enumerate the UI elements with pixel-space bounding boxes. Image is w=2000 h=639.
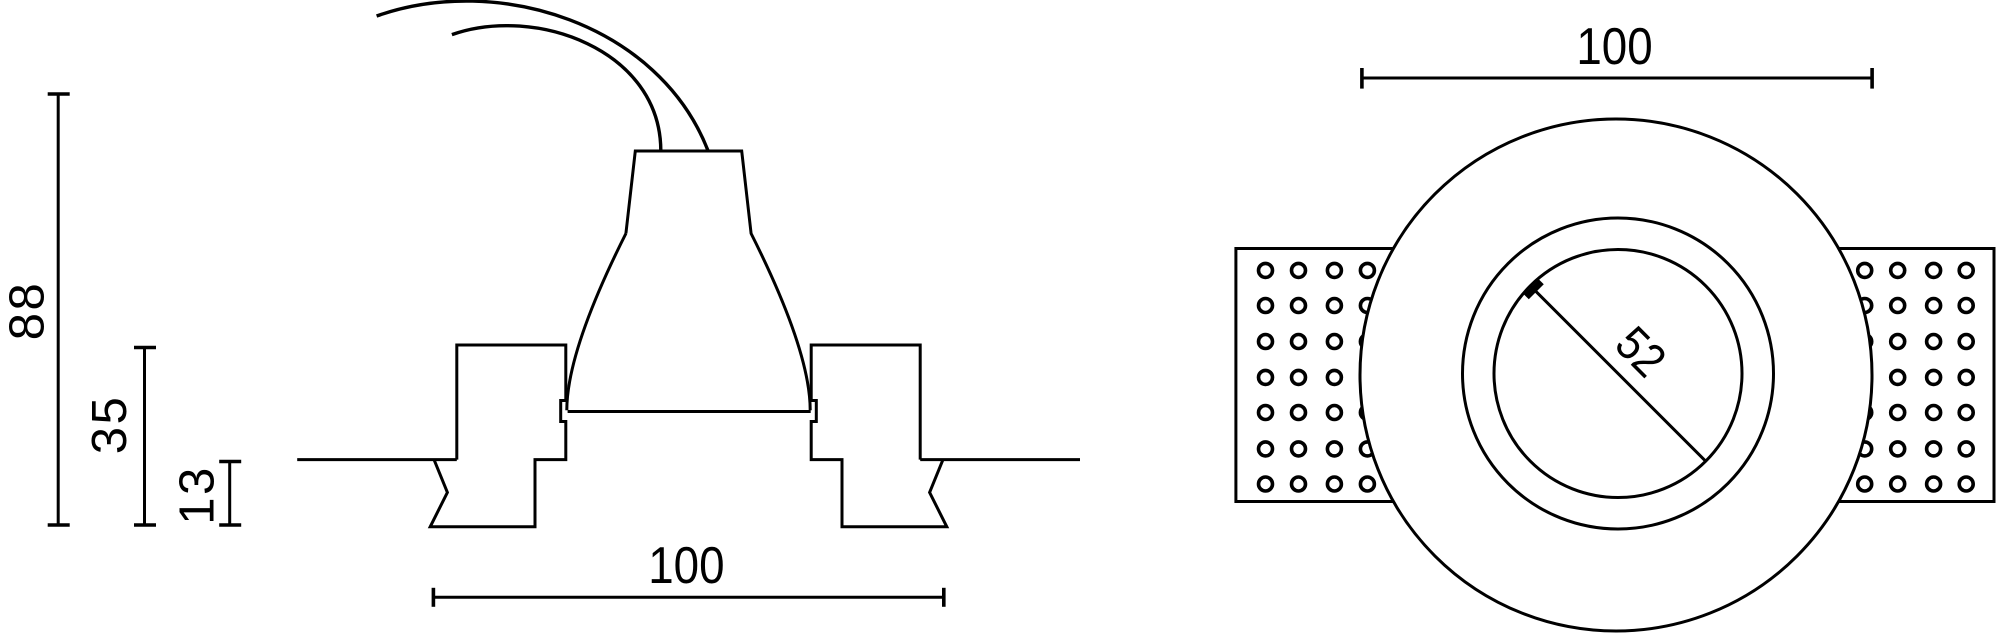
svg-text:100: 100 [648, 537, 724, 594]
lamp front face line [568, 410, 811, 413]
front ring outer circle [1360, 119, 1872, 631]
cable outer wire [377, 1, 708, 150]
front ring middle circle [1463, 218, 1774, 529]
cable inner wire [452, 26, 661, 151]
svg-text:100: 100 [1576, 18, 1652, 75]
right mounting block [811, 345, 947, 527]
lamp body (GU10) [567, 151, 810, 410]
diagonal end tick [1526, 282, 1541, 297]
dimension 88 [48, 94, 70, 525]
ceiling line left [297, 458, 457, 461]
dimension 13 [219, 462, 241, 526]
diagonal diameter line [1530, 286, 1705, 461]
left perforated plate (clipped behind circle) [1236, 249, 1456, 502]
dimension 100 (top of front view) [1362, 68, 1872, 89]
front ring inner circle [1494, 250, 1742, 498]
dimension 100 (bottom of section view) [433, 588, 943, 607]
svg-text:13: 13 [171, 465, 225, 525]
right perforated plate (clipped behind circle) [1774, 249, 1994, 502]
dimension 35 [134, 348, 156, 526]
ceiling line right [920, 458, 1080, 461]
svg-text:88: 88 [1, 281, 55, 341]
left mounting block [430, 345, 566, 527]
svg-text:35: 35 [83, 395, 137, 455]
